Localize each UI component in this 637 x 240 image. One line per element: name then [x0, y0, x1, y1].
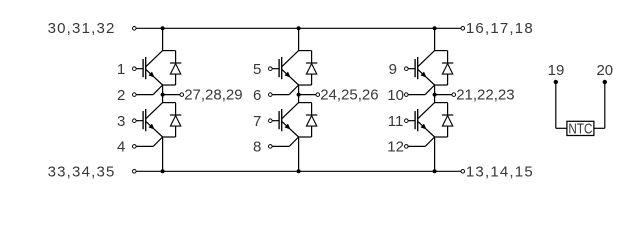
svg-text:9: 9: [389, 61, 397, 78]
transistor T2 (IGBT): [134, 103, 162, 137]
wire: DC+ top rail: [134, 27, 463, 29]
junction: leg 1 bottom rail: [161, 169, 165, 173]
diode D6 (freewheel): [442, 103, 453, 137]
wire: leg 2 midpoint vertical (emitter to lower collector): [298, 85, 300, 103]
svg-text:4: 4: [117, 139, 125, 156]
terminal pin 1 (gate upper): [133, 67, 137, 71]
wire: leg 3 upper collector horizontal: [435, 50, 448, 52]
terminal 16,17,18 (top right): [461, 27, 465, 31]
terminal pin 10 (aux emitter upper): [405, 93, 409, 97]
wire: leg 1 phase output to terminal: [163, 94, 182, 96]
svg-text:5: 5: [253, 61, 261, 78]
transistor T5 (IGBT): [406, 51, 434, 85]
junction: leg 1 phase node: [161, 93, 165, 97]
wire: leg 1 lower collector horizontal: [163, 102, 176, 104]
wire: leg 3 upper emitter horizontal: [435, 84, 448, 86]
diode D1 (freewheel): [170, 51, 181, 85]
wire: leg 2 lower collector horizontal: [299, 102, 312, 104]
wire: leg 3 lower emitter horizontal: [435, 136, 448, 138]
terminal pin 8 (aux emitter lower): [269, 145, 273, 149]
wire: pin 10 auxiliary emitter lead: [406, 94, 425, 96]
junction: leg 3 phase node: [433, 93, 437, 97]
wire: leg 2 lower emitter horizontal: [299, 136, 312, 138]
terminal phase output 24,25,26: [316, 93, 320, 97]
diode D2 (freewheel): [170, 103, 181, 137]
diode D3 (freewheel): [306, 51, 317, 85]
svg-text:11: 11: [388, 113, 404, 130]
transistor T3 (IGBT): [270, 51, 298, 85]
junction: leg 1 top rail: [161, 26, 165, 30]
terminal phase output 27,28,29: [180, 93, 184, 97]
wire: pin 2 auxiliary emitter lead: [134, 94, 153, 96]
svg-text:NTC: NTC: [568, 120, 592, 137]
wire: leg 1 lower emitter horizontal: [163, 136, 176, 138]
terminal pin 11 (gate lower): [405, 119, 409, 123]
terminal pin 19 (NTC): [554, 80, 558, 84]
terminal 33,34,35 (DC- left): [133, 170, 137, 174]
wire: leg 3 collector stem from top rail: [434, 28, 436, 50]
terminal pin 7 (gate lower): [269, 119, 273, 123]
terminal pin 6 (aux emitter upper): [269, 93, 273, 97]
terminal pin 3 (gate lower): [133, 119, 137, 123]
wire: leg 2 upper emitter horizontal: [299, 84, 312, 86]
wire: leg 1 midpoint vertical (emitter to lower collector): [162, 85, 164, 103]
wire: leg 2 phase output to terminal: [299, 94, 318, 96]
wire: pin 20 to NTC: [594, 82, 605, 128]
svg-text:21,22,23: 21,22,23: [456, 87, 514, 104]
wire: leg 3 emitter stem to bottom rail: [434, 137, 436, 171]
wire: leg 1 collector stem from top rail: [162, 28, 164, 50]
svg-text:10: 10: [387, 87, 404, 104]
wire: leg 3 phase output to terminal: [435, 94, 454, 96]
svg-text:1: 1: [117, 61, 125, 78]
svg-text:7: 7: [253, 113, 261, 130]
terminal pin 9 (gate upper): [405, 67, 409, 71]
svg-text:8: 8: [253, 139, 261, 156]
terminal pin 12 (aux emitter lower): [405, 145, 409, 149]
svg-text:24,25,26: 24,25,26: [320, 87, 378, 104]
junction: leg 2 bottom rail: [297, 169, 301, 173]
junction: leg 3 top rail: [433, 26, 437, 30]
wire: pin 19 to NTC: [556, 82, 567, 128]
transistor T4 (IGBT): [270, 103, 298, 137]
transistor T1 (IGBT): [134, 51, 162, 85]
terminal phase output 21,22,23: [452, 93, 456, 97]
terminal 30,31,32 (DC+ left): [133, 27, 137, 31]
junction: leg 2 top rail: [297, 26, 301, 30]
wire: leg 2 emitter stem to bottom rail: [298, 137, 300, 171]
wire: leg 1 emitter stem to bottom rail: [162, 137, 164, 171]
wire: pin 12 auxiliary emitter lead: [406, 145, 425, 147]
wire: leg 2 upper collector horizontal: [299, 50, 312, 52]
terminal pin 4 (aux emitter lower): [133, 145, 137, 149]
terminal pin 2 (aux emitter upper): [133, 93, 137, 97]
transistor T6 (IGBT): [406, 103, 434, 137]
svg-text:16,17,18: 16,17,18: [466, 20, 534, 37]
svg-text:6: 6: [253, 87, 261, 104]
wire: pin 4 auxiliary emitter lead: [134, 145, 153, 147]
wire: leg 2 collector stem from top rail: [298, 28, 300, 50]
thermistor NTC: [567, 120, 594, 137]
wire: DC- bottom rail: [134, 170, 463, 172]
junction: leg 3 bottom rail: [433, 169, 437, 173]
terminal pin 5 (gate upper): [269, 67, 273, 71]
wire: leg 1 upper collector horizontal: [163, 50, 176, 52]
svg-text:12: 12: [387, 139, 404, 156]
junction: leg 2 phase node: [297, 93, 301, 97]
svg-text:20: 20: [596, 62, 613, 79]
wire: leg 1 upper emitter horizontal: [163, 84, 176, 86]
svg-text:27,28,29: 27,28,29: [184, 87, 242, 104]
diode D5 (freewheel): [442, 51, 453, 85]
terminal pin 20 (NTC): [603, 80, 607, 84]
svg-text:19: 19: [548, 62, 565, 79]
svg-text:13,14,15: 13,14,15: [466, 164, 534, 181]
wire: leg 3 lower collector horizontal: [435, 102, 448, 104]
wire: pin 8 auxiliary emitter lead: [270, 145, 289, 147]
wire: leg 3 midpoint vertical (emitter to lower collector): [434, 85, 436, 103]
svg-text:3: 3: [117, 113, 125, 130]
svg-text:30,31,32: 30,31,32: [48, 20, 116, 37]
svg-text:2: 2: [117, 87, 125, 104]
terminal 13,14,15 (bottom right): [461, 170, 465, 174]
diode D4 (freewheel): [306, 103, 317, 137]
wire: pin 6 auxiliary emitter lead: [270, 94, 289, 96]
svg-text:33,34,35: 33,34,35: [48, 164, 116, 181]
